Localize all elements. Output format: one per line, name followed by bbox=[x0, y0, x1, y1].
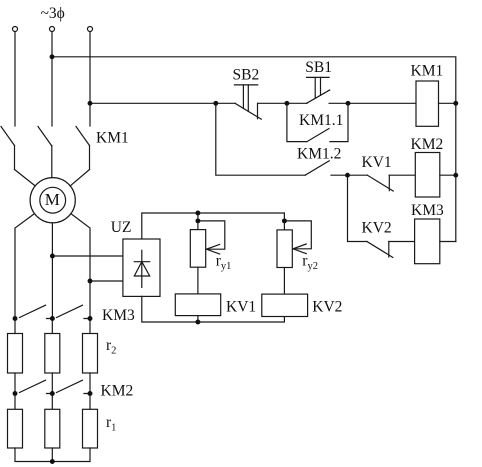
svg-text:r1: r1 bbox=[106, 414, 116, 434]
svg-text:UZ: UZ bbox=[111, 219, 132, 236]
svg-text:KM1.1: KM1.1 bbox=[299, 112, 343, 129]
svg-text:KV2: KV2 bbox=[362, 219, 392, 236]
svg-text:r2: r2 bbox=[106, 337, 116, 357]
svg-text:KM2: KM2 bbox=[411, 136, 444, 153]
svg-text:~3ϕ: ~3ϕ bbox=[41, 5, 65, 22]
svg-text:ry1: ry1 bbox=[216, 253, 232, 273]
svg-text:SB1: SB1 bbox=[305, 59, 332, 76]
svg-text:KM3: KM3 bbox=[102, 307, 135, 324]
svg-text:M: M bbox=[45, 190, 60, 209]
svg-text:KM1: KM1 bbox=[96, 129, 129, 146]
svg-text:ry2: ry2 bbox=[302, 253, 318, 273]
svg-text:KM2: KM2 bbox=[101, 383, 134, 400]
svg-text:SB2: SB2 bbox=[233, 66, 260, 83]
svg-text:KM1.2: KM1.2 bbox=[297, 146, 341, 163]
svg-text:KM1: KM1 bbox=[411, 62, 444, 79]
svg-text:KV1: KV1 bbox=[362, 154, 392, 171]
svg-text:KV1: KV1 bbox=[226, 299, 256, 316]
svg-text:KM3: KM3 bbox=[411, 202, 444, 219]
svg-text:KV2: KV2 bbox=[312, 299, 342, 316]
